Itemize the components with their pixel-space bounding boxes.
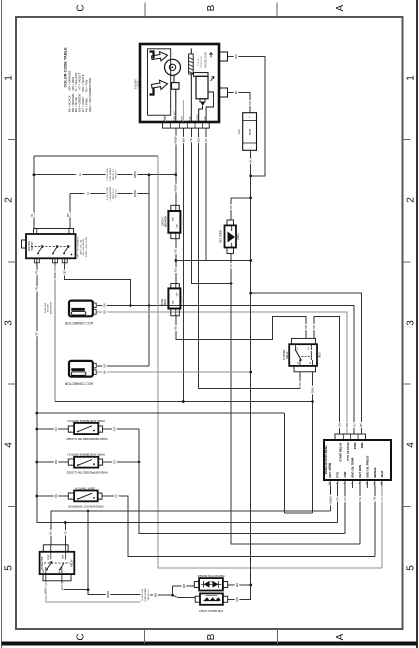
svg-text:WHEN DEPRESSED SW CLOSED: WHEN DEPRESSED SW CLOSED — [66, 437, 107, 441]
svg-text:50V: 50V — [176, 292, 178, 296]
svg-text:OFF = NO CONNECT: OFF = NO CONNECT — [78, 236, 80, 258]
svg-text:MAIN: MAIN — [164, 299, 167, 305]
svg-text:BREAKER: BREAKER — [164, 216, 167, 227]
svg-text:SOL: SOL — [204, 115, 206, 120]
svg-text:START = B1+S1+M1: START = B1+S1+M1 — [85, 236, 88, 257]
svg-text:BU: BU — [197, 138, 201, 142]
svg-text:RUN: RUN — [62, 554, 64, 559]
svg-text:B1: B1 — [30, 213, 34, 217]
svg-text:PO: PO — [60, 585, 64, 589]
svg-text:VT: VT — [380, 497, 384, 501]
svg-text:30A: 30A — [172, 300, 175, 304]
svg-text:W/BN: W/BN — [106, 591, 110, 598]
svg-text:BRAKE: BRAKE — [373, 467, 377, 477]
svg-text:BK: BK — [359, 423, 363, 427]
svg-text:PWR: PWR — [353, 443, 357, 450]
svg-text:2 LIGHT GRN: 2 LIGHT GRN — [107, 187, 109, 200]
svg-text:GN: GN — [338, 423, 342, 427]
svg-text:87: 87 — [297, 347, 299, 349]
svg-text:BK: BK — [102, 310, 106, 314]
svg-text:CONN W/TAPE: CONN W/TAPE — [144, 587, 147, 602]
svg-text:SEAT SWITCH: SEAT SWITCH — [75, 487, 95, 491]
svg-text:B: B — [206, 4, 217, 11]
svg-text:SHD: SHD — [360, 443, 364, 449]
svg-text:AB2: AB2 — [209, 580, 212, 583]
svg-text:S/N 2037: S/N 2037 — [116, 170, 118, 179]
svg-text:W/BU: W/BU — [44, 587, 48, 594]
svg-text:SEAT: SEAT — [380, 470, 384, 478]
svg-text:TN: TN — [35, 287, 39, 291]
svg-text:1: 1 — [406, 75, 417, 81]
svg-text:7A: 7A — [86, 192, 90, 195]
svg-text:OB: OB — [304, 325, 308, 329]
svg-text:A/O: A/O — [112, 427, 116, 432]
svg-text:MB: MB — [153, 593, 157, 597]
svg-text:YE: YE — [229, 264, 233, 268]
svg-text:CLOSED: CLOSED — [82, 432, 90, 434]
svg-text:R/BW: R/BW — [174, 184, 178, 191]
svg-text:BN: BN — [345, 423, 349, 427]
svg-text:5: 5 — [406, 565, 417, 571]
svg-text:C: C — [76, 633, 87, 640]
svg-text:YE: YE — [63, 531, 67, 535]
svg-text:R/BU: R/BU — [310, 387, 314, 393]
svg-text:W1: W1 — [66, 212, 70, 217]
svg-text:PU: PU — [352, 423, 356, 427]
svg-text:A: A — [335, 4, 346, 11]
svg-text:12V: 12V — [237, 129, 241, 134]
svg-text:BU: BU — [298, 382, 302, 386]
svg-text:ENG OIL PRESS: ENG OIL PRESS — [365, 456, 369, 478]
svg-text:RECTIFIER: RECTIFIER — [221, 230, 223, 242]
svg-text:OR: OR — [102, 303, 106, 307]
svg-text:R2: R2 — [204, 138, 208, 142]
svg-text:B: B — [206, 633, 217, 640]
svg-text:RD: RD — [248, 101, 252, 105]
svg-text:OR: OR — [312, 325, 316, 329]
svg-text:RESISTOR: RESISTOR — [201, 56, 203, 68]
svg-text:30: 30 — [308, 347, 310, 349]
svg-text:RD: RD — [174, 326, 178, 330]
svg-text:WH: WH — [234, 54, 238, 59]
svg-text:START: START — [47, 553, 50, 560]
svg-text:PTO CLUTCH: PTO CLUTCH — [346, 443, 350, 461]
svg-text:MB: MB — [182, 584, 186, 588]
svg-text:5: 5 — [4, 565, 15, 571]
svg-text:BK: BK — [102, 370, 106, 374]
svg-text:BK: BK — [234, 91, 238, 95]
svg-text:MB: MB — [235, 583, 239, 587]
svg-text:BATT: BATT — [248, 128, 252, 135]
svg-text:30E: 30E — [176, 224, 178, 228]
svg-text:85: 85 — [310, 362, 312, 364]
svg-text:START: START — [196, 113, 199, 121]
svg-text:YE: YE — [358, 497, 362, 501]
svg-text:RELAY: RELAY — [286, 351, 289, 359]
svg-text:A/O: A/O — [112, 460, 116, 465]
svg-text:ACC CONNECTOR: ACC CONNECTOR — [64, 381, 93, 385]
svg-text:A: A — [335, 633, 346, 640]
svg-text:-: - — [247, 148, 251, 149]
svg-text:YE: YE — [35, 332, 39, 336]
svg-text:PARK AND BRAKE SWITCH: PARK AND BRAKE SWITCH — [67, 419, 104, 423]
svg-text:CLOSED: CLOSED — [82, 466, 90, 468]
svg-text:OR: OR — [102, 364, 106, 368]
svg-text:RELAY: RELAY — [71, 559, 74, 567]
svg-text:KEY SCAN: KEY SCAN — [328, 463, 332, 477]
svg-text:CONN W/TAPE: CONN W/TAPE — [109, 167, 112, 182]
svg-text:(NC) = NO CONNECTION: (NC) = NO CONNECTION — [88, 78, 92, 112]
svg-text:1A: 1A — [78, 173, 82, 176]
svg-text:(RLY): (RLY) — [319, 352, 321, 358]
svg-text:OPEN: OPEN — [83, 500, 89, 502]
svg-text:MB: MB — [235, 597, 239, 601]
svg-text:BN: BN — [54, 460, 58, 464]
svg-text:1: 1 — [4, 75, 15, 81]
svg-text:OPEN WITHOUT OPERATOR: OPEN WITHOUT OPERATOR — [68, 504, 103, 508]
svg-text:3: 3 — [4, 320, 15, 326]
svg-text:+: + — [247, 116, 251, 118]
svg-text:PROTECTION DIODES: PROTECTION DIODES — [197, 574, 224, 577]
svg-text:INTERLOCK: INTERLOCK — [42, 556, 44, 570]
svg-text:YE: YE — [189, 138, 193, 142]
svg-text:KEY RUN: KEY RUN — [358, 465, 362, 478]
svg-text:RD: RD — [174, 268, 178, 272]
svg-text:NN30A: NN30A — [182, 218, 185, 225]
svg-text:RD: RD — [174, 249, 178, 253]
svg-text:OR: OR — [63, 270, 67, 274]
svg-text:R/BW: R/BW — [174, 136, 178, 143]
svg-text:ON = B1+A1+M1: ON = B1+A1+M1 — [82, 238, 85, 256]
svg-text:PULSE: PULSE — [198, 58, 200, 66]
svg-text:SEE PG 2-4: SEE PG 2-4 — [113, 168, 115, 180]
svg-text:2: 2 — [406, 197, 417, 203]
svg-text:START RELAY: START RELAY — [339, 442, 343, 461]
svg-text:MAG: MAG — [163, 115, 166, 120]
svg-text:C: C — [76, 4, 87, 11]
svg-text:(REC): (REC) — [238, 233, 240, 240]
svg-text:SWITCH: SWITCH — [32, 241, 34, 250]
svg-text:S/N 2037: S/N 2037 — [48, 303, 50, 312]
svg-text:BN: BN — [54, 494, 58, 498]
svg-text:FUSE LINK: FUSE LINK — [45, 302, 47, 313]
svg-text:TN: TN — [373, 497, 377, 501]
svg-text:AND BELOW: AND BELOW — [50, 302, 53, 314]
svg-text:CONN W/TAPE: CONN W/TAPE — [109, 186, 112, 201]
svg-text:CIRCUIT: CIRCUIT — [162, 216, 164, 226]
svg-text:CHP: CHP — [343, 471, 347, 477]
svg-text:S/N 2037: S/N 2037 — [116, 189, 118, 198]
svg-text:1 LIGHT GRN: 1 LIGHT GRN — [107, 168, 109, 181]
svg-text:SEE PG 2-4: SEE PG 2-4 — [148, 589, 150, 601]
svg-text:R/BW: R/BW — [133, 171, 137, 178]
svg-text:W/BU: W/BU — [53, 271, 57, 278]
svg-text:ACC: ACC — [58, 568, 61, 573]
svg-text:WH: WH — [181, 138, 185, 143]
svg-text:3 LIGHT GRN: 3 LIGHT GRN — [142, 588, 144, 601]
svg-text:IGNITION: IGNITION — [29, 241, 31, 252]
svg-text:2: 2 — [4, 197, 15, 203]
svg-text:FUSE: FUSE — [162, 298, 164, 305]
svg-text:GND OUT: GND OUT — [174, 110, 176, 121]
svg-text:ENG OIL TEMP: ENG OIL TEMP — [351, 457, 355, 477]
svg-text:ACC = B1 + A1: ACC = B1 + A1 — [79, 239, 82, 255]
svg-text:UNIT: UNIT — [136, 81, 140, 87]
svg-text:3: 3 — [406, 320, 417, 326]
svg-text:PK: PK — [114, 494, 118, 498]
svg-text:R/BW: R/BW — [133, 190, 137, 197]
svg-text:GY: GY — [343, 497, 347, 501]
svg-text:TN: TN — [35, 271, 39, 275]
svg-text:PARK AND BRAKE SWITCH: PARK AND BRAKE SWITCH — [67, 453, 104, 457]
svg-text:ACC CONNECTOR: ACC CONNECTOR — [64, 321, 93, 325]
svg-text:PK: PK — [336, 497, 340, 501]
svg-text:BK: BK — [249, 159, 253, 163]
svg-text:BK: BK — [229, 205, 233, 209]
svg-text:4: 4 — [406, 442, 417, 448]
svg-text:SEE PG 2-4: SEE PG 2-4 — [113, 187, 115, 199]
svg-text:86: 86 — [297, 362, 299, 364]
svg-text:PTO: PTO — [336, 471, 340, 478]
svg-text:BU: BU — [54, 427, 58, 431]
svg-text:WHEN DEPRESSED SW CLOSED: WHEN DEPRESSED SW CLOSED — [66, 471, 107, 475]
svg-text:GN/BU: GN/BU — [329, 496, 333, 505]
svg-text:NN30A: NN30A — [182, 295, 185, 302]
svg-text:GND: GND — [182, 115, 184, 120]
svg-text:BK: BK — [49, 531, 53, 535]
svg-text:STARTER: STARTER — [283, 349, 286, 360]
svg-text:FOR RECOIL START: FOR RECOIL START — [199, 609, 223, 612]
svg-text:4: 4 — [4, 442, 15, 448]
svg-text:ENGINE STOP: ENGINE STOP — [204, 51, 207, 68]
